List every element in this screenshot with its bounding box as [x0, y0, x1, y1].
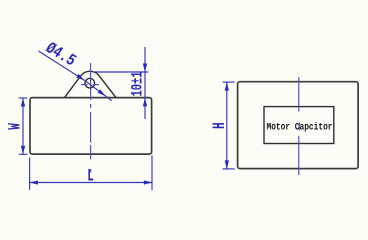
outer rectangle [238, 82, 359, 169]
dimension 10±1 [94, 47, 149, 119]
extension line at tab top [94, 71, 149, 73]
leader line Ø4.5 [39, 51, 112, 101]
centerline (right view) [298, 77, 301, 175]
arrow up to body top [143, 98, 147, 107]
svg-text:L: L [87, 167, 94, 186]
svg-text:10±1: 10±1 [129, 71, 146, 96]
W dimension [19, 98, 28, 154]
L dimension [29, 156, 152, 191]
svg-text:W: W [6, 123, 25, 130]
Ø4.5 text [42, 40, 79, 71]
capacitor body (left view) [30, 98, 152, 155]
arrowhead lower [98, 89, 106, 96]
mounting tab [65, 71, 117, 97]
svg-text:H: H [211, 122, 230, 129]
H dimension [223, 82, 235, 169]
inner rectangle [264, 107, 334, 144]
horizontal center tick at hole [81, 84, 99, 86]
vertical centerline (left view) [90, 63, 92, 172]
dimension line [144, 47, 146, 119]
hole circle [85, 78, 95, 88]
arrow down to tab-top extension [143, 64, 147, 73]
arrowhead at circle [76, 74, 84, 80]
